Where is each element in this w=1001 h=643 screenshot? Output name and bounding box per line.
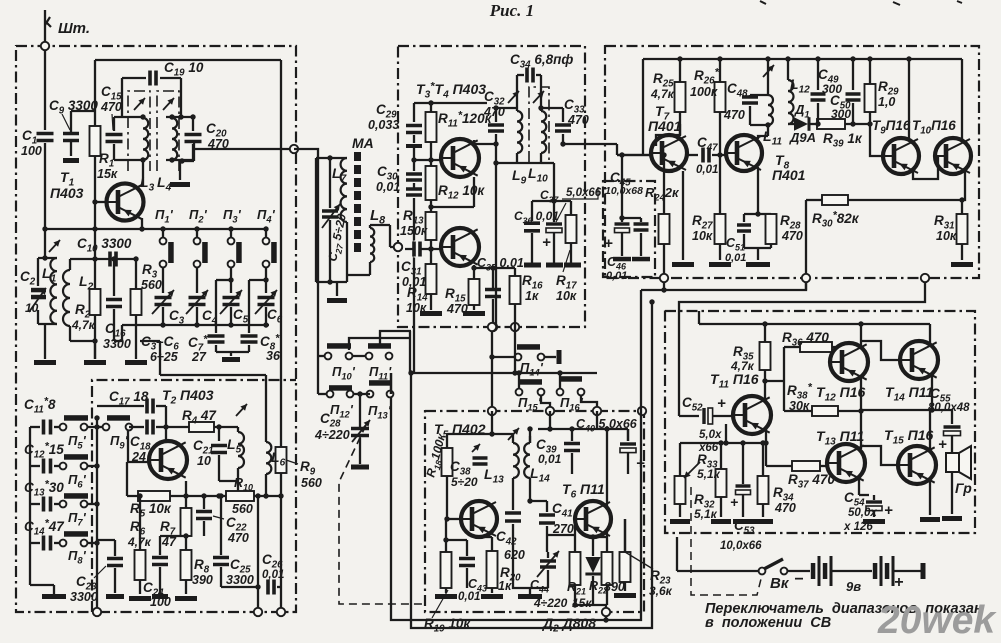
wire AGC line 1 xyxy=(664,282,806,290)
capacitor C55 output xyxy=(930,410,952,424)
capacitor C23 xyxy=(114,540,116,556)
transistor T14 xyxy=(900,341,938,379)
wire C10 to R3 xyxy=(135,259,137,289)
resistor R2 xyxy=(94,259,96,289)
padder capacitor C8 xyxy=(248,280,250,333)
capacitor C22 xyxy=(203,496,205,509)
svg-text:100: 100 xyxy=(21,144,42,158)
wire audio rail xyxy=(702,323,929,325)
svg-text:30к: 30к xyxy=(789,399,810,413)
node bus circles xyxy=(488,407,496,415)
svg-text:390: 390 xyxy=(604,580,625,594)
wire AM bus xyxy=(410,372,597,374)
wire band caps left bus xyxy=(29,427,31,585)
wire T14 base xyxy=(862,341,900,360)
wire T15 emitter gnd xyxy=(929,479,931,515)
ferrite rod xyxy=(354,152,361,161)
wire osc tank bottom xyxy=(219,480,238,482)
resistor R3 xyxy=(131,289,142,315)
wire C39 bus corner xyxy=(529,429,531,443)
inductor L10 xyxy=(541,111,546,153)
resistor R11 xyxy=(430,103,432,112)
wire T11 emitter xyxy=(726,424,766,443)
node right border crossing xyxy=(921,274,929,282)
trimmer arrow L4 xyxy=(163,98,174,110)
svg-text:1к: 1к xyxy=(498,579,512,593)
svg-text:Д9А: Д9А xyxy=(789,130,816,145)
resistor R28 xyxy=(766,214,777,244)
leader R9 xyxy=(286,460,298,464)
band capacitor C13 xyxy=(30,503,40,505)
capacitor C44 variable xyxy=(539,561,557,568)
resistor R31 xyxy=(957,214,968,244)
antenna Шт. xyxy=(44,10,46,46)
resistor R6 xyxy=(139,496,141,550)
node R24 bottom border xyxy=(660,274,668,282)
capacitor C37 electrolytic xyxy=(553,201,555,222)
node П bus at border xyxy=(93,608,101,616)
node R30 border crossing xyxy=(802,274,810,282)
trim arrows L9 L10 xyxy=(508,91,519,103)
svg-text:4,7к: 4,7к xyxy=(650,87,675,101)
resistor R18 xyxy=(442,448,453,476)
resistor R23 xyxy=(624,519,626,552)
svg-text:10: 10 xyxy=(197,454,211,468)
resistor R36 xyxy=(784,346,800,348)
svg-text:470: 470 xyxy=(446,302,468,316)
screen box L9 L10 xyxy=(529,87,549,162)
resistor R15 xyxy=(473,268,475,279)
wire R23 tap arrow xyxy=(625,552,653,569)
leader C37 xyxy=(556,203,566,222)
capacitor C26 xyxy=(221,586,258,588)
capacitor C24 xyxy=(159,536,161,555)
switch П5 xyxy=(60,424,67,431)
svg-text:МА: МА xyxy=(352,135,374,151)
svg-text:П7​': П7​' xyxy=(68,510,87,528)
diode Д1 Д9А xyxy=(788,123,794,125)
wire T3 base xyxy=(414,159,445,161)
variable capacitor C5 xyxy=(222,297,241,305)
resistor R26 xyxy=(719,59,721,82)
wire antenna down to C1 xyxy=(44,46,46,130)
capacitor C54 xyxy=(859,494,869,496)
svg-text:0,01: 0,01 xyxy=(538,452,562,466)
inductor L12 xyxy=(788,80,794,124)
wire T9 emitter to T10 base xyxy=(913,157,938,179)
wire T10 emitter to R31 xyxy=(962,170,965,214)
svg-text:0,01: 0,01 xyxy=(458,591,480,603)
wire IF filter drop xyxy=(514,327,516,373)
svg-text:10к: 10к xyxy=(556,289,577,303)
trimmer arrow L3 xyxy=(134,98,145,110)
block border C45-C46 filter box xyxy=(603,180,655,277)
wire T9 collector xyxy=(908,59,910,138)
node antenna/border crossing xyxy=(41,42,49,50)
capacitor C9 xyxy=(70,111,72,132)
switch П4 xyxy=(265,229,267,238)
svg-text:15к: 15к xyxy=(572,596,592,610)
svg-text:П401: П401 xyxy=(648,118,682,134)
trimmer arrow L13 xyxy=(508,428,519,440)
wire C15 leg xyxy=(113,117,115,131)
transistor T5 xyxy=(461,501,497,537)
svg-text:Вк: Вк xyxy=(770,575,790,592)
capacitor C16 xyxy=(113,259,115,296)
resistor R19 xyxy=(445,519,447,552)
svg-text:Шт.: Шт. xyxy=(58,20,90,37)
wire T4 out down xyxy=(495,144,497,163)
resistor R24 xyxy=(663,155,665,214)
capacitor C47 xyxy=(687,154,698,156)
svg-text:+: + xyxy=(730,494,738,510)
transistor T7 xyxy=(651,135,687,171)
wire C25 down xyxy=(257,496,259,612)
svg-text:−: − xyxy=(794,571,803,588)
svg-text:П9​': П9​' xyxy=(110,433,129,451)
switch П14 xyxy=(492,356,518,358)
wire T14 collector xyxy=(929,324,931,347)
wire T5 base xyxy=(447,518,463,520)
leader R19 xyxy=(432,590,448,618)
inductor L2 xyxy=(69,259,71,270)
wire C35 down xyxy=(492,299,494,327)
svg-text:П6​': П6​' xyxy=(68,472,87,490)
wire L7 bottom xyxy=(346,222,348,282)
wire base T1 xyxy=(95,201,111,203)
inductor L5 xyxy=(237,427,239,432)
inductor L7 xyxy=(341,158,347,222)
svg-text:150к: 150к xyxy=(400,224,428,238)
svg-text:5,0x66: 5,0x66 xyxy=(566,187,602,199)
wire output node xyxy=(860,411,862,449)
wire T15 collector xyxy=(929,410,931,452)
svg-text:10,0х68: 10,0х68 xyxy=(605,185,643,197)
leader C15 xyxy=(112,114,113,130)
wire П bus right xyxy=(96,418,98,612)
svg-text:560: 560 xyxy=(301,476,322,490)
resistor R27 xyxy=(719,155,721,214)
svg-text:620: 620 xyxy=(504,548,525,562)
svg-text:47: 47 xyxy=(161,535,177,549)
capacitor C50 xyxy=(852,59,854,90)
wire L4 top to C20 xyxy=(190,114,195,119)
svg-text:+: + xyxy=(884,502,893,519)
transistor T6 xyxy=(575,501,611,537)
capacitor C19 coupling xyxy=(121,78,123,117)
switch П13 xyxy=(367,391,374,398)
svg-text:10к: 10к xyxy=(406,301,427,315)
wire AGC line 2 xyxy=(679,282,925,311)
wire R3 to ground xyxy=(135,315,137,359)
wire T6 base xyxy=(574,535,576,552)
svg-text:10: 10 xyxy=(25,301,39,315)
wire П11 up link xyxy=(380,331,411,346)
wire to switch xyxy=(676,537,678,571)
resistor R13 xyxy=(426,212,437,240)
wire to T9 base xyxy=(870,124,884,156)
resistor R33 xyxy=(720,443,722,469)
transistor T4 xyxy=(441,228,479,266)
svg-text:80,0х48: 80,0х48 xyxy=(928,402,970,414)
ground L7 xyxy=(336,282,338,296)
block border oscillator section xyxy=(92,380,296,612)
wire C28 stem xyxy=(359,394,361,428)
capacitor C20 xyxy=(192,117,194,131)
wire AGC line 1b xyxy=(641,289,664,291)
wire R35 node xyxy=(765,380,784,382)
resistor R34 xyxy=(762,443,764,476)
inductor L9 xyxy=(516,108,518,111)
transistor T3 xyxy=(441,139,479,177)
capacitor C17 xyxy=(97,405,144,407)
inductor L6 xyxy=(265,390,267,442)
capacitor C43 xyxy=(466,540,468,556)
capacitor C46 xyxy=(640,218,642,222)
svg-text:3,6к: 3,6к xyxy=(649,584,673,598)
resistor R1 xyxy=(90,126,101,156)
svg-text:9в: 9в xyxy=(846,579,861,594)
wire T11 collector xyxy=(764,381,766,402)
svg-text:+: + xyxy=(938,436,947,453)
switch П10 xyxy=(318,355,324,357)
svg-text:15к: 15к xyxy=(97,167,118,181)
switch П16 xyxy=(559,373,561,389)
resistor R5 xyxy=(138,491,170,501)
wire T7 base входной xyxy=(617,154,652,156)
variable capacitor C28 xyxy=(350,428,370,436)
svg-text:Гр: Гр xyxy=(955,480,972,496)
band capacitor C12 xyxy=(30,465,40,467)
wire T10 collector xyxy=(961,59,963,139)
wire between cells xyxy=(831,570,872,572)
capacitor C25 xyxy=(212,557,230,565)
svg-text:4÷220: 4÷220 xyxy=(533,596,568,610)
svg-text:+: + xyxy=(542,234,551,251)
potentiometer R32 xyxy=(679,443,681,476)
resistor R30 feedback xyxy=(806,199,822,201)
switch Вк xyxy=(759,568,766,575)
transistor T9 xyxy=(883,138,919,174)
resistor R8 xyxy=(181,550,192,580)
capacitor C1 xyxy=(44,143,46,229)
switch П1 xyxy=(162,229,164,238)
svg-text:50,0х: 50,0х xyxy=(848,507,877,519)
inductor L3 xyxy=(143,118,148,160)
resistor R20 xyxy=(491,537,493,551)
svg-text:+: + xyxy=(717,395,726,412)
wire R12 T3 emitter xyxy=(473,177,475,207)
svg-text:560: 560 xyxy=(232,502,253,516)
svg-text:П403: П403 xyxy=(50,185,84,201)
cropped text fragment top edge xyxy=(760,1,766,4)
resistor R39 xyxy=(817,119,845,129)
transistor T12 xyxy=(830,343,868,381)
wire IF top rail xyxy=(414,102,487,104)
switch П2 xyxy=(196,229,198,238)
transistor T1 xyxy=(142,160,144,186)
svg-text:в положении СВ: в положении СВ xyxy=(705,615,831,631)
wire L1 ground xyxy=(44,324,46,359)
leader C22 xyxy=(213,516,224,519)
switch П15 xyxy=(518,373,520,389)
svg-text:4,7к: 4,7к xyxy=(71,318,96,332)
wire T8 collector xyxy=(758,136,768,139)
wire decoupling bus xyxy=(532,200,571,202)
leader C23 xyxy=(94,566,106,578)
svg-text:П5​': П5​' xyxy=(68,433,87,451)
svg-text:270: 270 xyxy=(552,522,574,536)
screen box L3 xyxy=(128,91,150,171)
capacitor C42 xyxy=(512,490,514,510)
resistor R16 xyxy=(510,276,521,304)
capacitor C27 trimmer xyxy=(329,158,331,208)
wire supply line B xyxy=(411,302,652,628)
wire L7 left xyxy=(315,158,317,282)
svg-text:470: 470 xyxy=(723,108,745,122)
padder capacitor C7 xyxy=(215,280,217,333)
block border IF amplifier xyxy=(398,45,585,327)
resistor R22 xyxy=(606,537,608,552)
svg-text:390: 390 xyxy=(192,573,213,587)
wire L8 to osc line xyxy=(389,225,391,247)
svg-text:36: 36 xyxy=(266,349,281,363)
wire П9 left stub xyxy=(97,426,103,428)
svg-text:П8​': П8​' xyxy=(68,548,87,566)
battery cells 1 xyxy=(811,563,816,579)
wire R5 rail xyxy=(127,495,281,497)
capacitor C40 electrolytic xyxy=(627,429,629,441)
trimmer arrow L11 xyxy=(763,65,774,77)
capacitor C45 electrolytic xyxy=(621,155,623,218)
wire battery plus xyxy=(893,570,921,572)
capacitor C51 xyxy=(744,213,771,215)
svg-text:560: 560 xyxy=(141,278,162,292)
svg-text:П3​': П3​' xyxy=(223,207,242,225)
svg-text:4,7к: 4,7к xyxy=(127,535,152,549)
wire T2 base xyxy=(127,431,129,462)
capacitor C32 xyxy=(495,108,497,122)
svg-text:П1​': П1​' xyxy=(155,207,174,225)
transistor T8 xyxy=(726,135,762,171)
wire П13-П14 link xyxy=(390,373,392,394)
capacitor C31 xyxy=(414,241,421,258)
capacitor C48 xyxy=(749,95,751,98)
wire L9 bottom xyxy=(517,162,541,164)
speaker Гр xyxy=(946,453,959,472)
svg-text:0,01: 0,01 xyxy=(606,270,627,282)
trimmer arrow L5 xyxy=(236,404,247,416)
wire R30 left drop xyxy=(805,200,807,290)
inductor L14 xyxy=(529,436,531,443)
svg-text:10к: 10к xyxy=(936,229,957,243)
resistor R38 xyxy=(812,406,838,416)
wire top rail of mixer xyxy=(95,59,281,61)
inductor L1 xyxy=(50,258,57,324)
transistor T10 xyxy=(935,138,971,174)
switch П3 xyxy=(230,229,232,238)
ground under L4 xyxy=(179,160,181,180)
block border IF/detector xyxy=(605,45,979,278)
wire T3 collector tank xyxy=(473,140,475,144)
wire T2 emitter to R7 xyxy=(185,481,187,508)
wire main rail top right xyxy=(643,58,962,60)
wire L3 tank bottom xyxy=(114,159,143,161)
svg-text:+: + xyxy=(894,574,903,591)
svg-text:5,1к: 5,1к xyxy=(697,467,721,481)
resistor R21 xyxy=(570,552,581,585)
transistor T13 xyxy=(827,444,865,482)
wire switch to battery xyxy=(788,570,810,572)
wire C10 line xyxy=(94,202,96,259)
wire tuning rail xyxy=(122,324,269,326)
inductor L11 xyxy=(768,95,773,125)
gang link dashed xyxy=(339,425,424,604)
wire R1 feed xyxy=(94,60,96,126)
resistor R9 xyxy=(280,418,282,447)
frame C37 value xyxy=(562,187,598,199)
wire П13 to П14 xyxy=(390,373,392,394)
svg-text:300: 300 xyxy=(831,107,851,121)
wire T13 emitter xyxy=(858,477,860,495)
node IF input xyxy=(394,243,402,251)
wire T4 base xyxy=(405,248,445,250)
switch П9 xyxy=(103,424,110,431)
variable capacitor C6 xyxy=(257,297,276,305)
wire supply line A xyxy=(391,290,641,620)
wire T15 base xyxy=(861,446,898,465)
capacitor C2 trimmer xyxy=(30,286,46,300)
inductor L8 xyxy=(369,225,371,228)
svg-text:5,1к: 5,1к xyxy=(694,507,718,521)
capacitor C39 xyxy=(571,429,573,441)
capacitor C35 xyxy=(473,265,475,268)
block border RF front-end xyxy=(16,45,296,612)
resistor R17 xyxy=(570,201,572,215)
svg-text:П2​': П2​' xyxy=(189,207,208,225)
svg-text:0,01: 0,01 xyxy=(262,569,284,581)
wire zener node to border xyxy=(605,605,607,608)
svg-text:470: 470 xyxy=(567,113,589,127)
resistor R35 xyxy=(764,324,766,342)
svg-text:24: 24 xyxy=(131,450,146,464)
svg-text:10к: 10к xyxy=(692,229,713,243)
capacitor C33 xyxy=(541,107,563,109)
variable capacitor C4 xyxy=(188,297,207,305)
capacitor C29 xyxy=(413,103,415,122)
wire rail П1-П4 xyxy=(45,228,266,230)
gang link R32 dashed xyxy=(691,487,762,595)
svg-text:1,0: 1,0 xyxy=(878,95,895,109)
capacitor C36 xyxy=(531,201,533,221)
wire R25 to base xyxy=(679,124,681,135)
svg-text:Рис. 1: Рис. 1 xyxy=(489,1,534,20)
block border converter T5 T6 xyxy=(425,410,644,612)
wire IF out xyxy=(563,143,617,145)
screen box L4 xyxy=(157,91,179,171)
battery cells 2 xyxy=(873,563,878,579)
resistor R37 xyxy=(766,465,792,467)
svg-text:0,01: 0,01 xyxy=(376,180,400,194)
tank L1 C2 xyxy=(37,258,39,296)
svg-text:27: 27 xyxy=(191,350,207,364)
inductor L13 xyxy=(512,434,514,443)
band capacitor C14 xyxy=(30,542,40,544)
capacitor C30 xyxy=(413,160,415,171)
wire T12 collector xyxy=(860,324,862,349)
svg-text:0,033: 0,033 xyxy=(368,118,399,132)
resistor R12 xyxy=(430,160,432,166)
